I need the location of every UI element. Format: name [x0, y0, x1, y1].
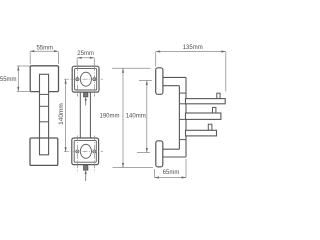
svg-text:140mm: 140mm — [58, 103, 65, 125]
svg-text:135mm: 135mm — [183, 45, 203, 51]
svg-text:55mm: 55mm — [36, 45, 53, 51]
svg-text:65mm: 65mm — [163, 170, 180, 176]
svg-text:55mm: 55mm — [0, 77, 17, 83]
svg-text:190mm: 190mm — [99, 113, 119, 119]
svg-text:25mm: 25mm — [77, 51, 94, 57]
svg-text:140mm: 140mm — [126, 113, 146, 119]
